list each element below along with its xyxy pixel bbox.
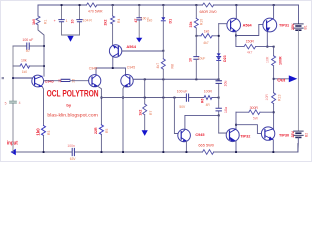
svg-text:100n: 100n bbox=[67, 144, 75, 148]
node junction base Q4 x163 bbox=[162, 50, 164, 52]
node junction base line x144 bbox=[144, 78, 146, 80]
wire bottom ground rail bbox=[15, 144, 298, 152]
wire Q2 emitter column bbox=[98, 86, 102, 125]
svg-text:5W: 5W bbox=[253, 117, 259, 121]
node junction rail x139 bbox=[138, 4, 140, 6]
wire Q6 collector up and over bbox=[185, 115, 219, 129]
svg-text:300R: 300R bbox=[250, 106, 259, 110]
svg-text:Out: Out bbox=[277, 78, 285, 83]
resistor R16 rail left 470R bbox=[87, 3, 97, 7]
battery B1 positive supply bbox=[298, 5, 300, 23]
svg-text:R7: R7 bbox=[149, 111, 153, 115]
svg-text:10: 10 bbox=[70, 20, 74, 24]
node junction rail x196 bbox=[195, 4, 197, 6]
node junction Q6 emitter rail bbox=[186, 151, 188, 153]
node junction out bbox=[273, 78, 275, 80]
diode D1 bbox=[161, 17, 165, 20]
svg-text:5: 5 bbox=[5, 101, 7, 105]
svg-text:1k0: 1k0 bbox=[36, 128, 41, 136]
node junction output column top bbox=[273, 46, 275, 48]
wire mid bias column x218 upper bbox=[218, 24, 220, 54]
left edge port tick bbox=[2, 77, 4, 79]
wire R7 to ground bbox=[144, 115, 146, 130]
wire base Q1 bbox=[13, 77, 32, 79]
wire driver branch down bbox=[174, 98, 178, 134]
svg-text:D1: D1 bbox=[169, 19, 173, 24]
capacitor C11 on input column bbox=[10, 101, 17, 103]
svg-text:1k0: 1k0 bbox=[32, 19, 36, 25]
svg-text:1: 1 bbox=[66, 19, 68, 23]
svg-text:100R: 100R bbox=[204, 90, 213, 94]
svg-text:TIP32: TIP32 bbox=[240, 134, 250, 138]
node junction VAS rail bbox=[162, 151, 164, 153]
wire input column bbox=[12, 46, 14, 152]
node junction rail x79 bbox=[79, 4, 81, 6]
node junction base Q1 bbox=[12, 77, 14, 79]
wire Q9 emitter to rail bbox=[272, 140, 274, 152]
svg-text:22R: 22R bbox=[94, 127, 98, 134]
node junction feedback x218 bbox=[218, 97, 220, 99]
svg-text:10u: 10u bbox=[224, 107, 228, 113]
svg-text:100 uF: 100 uF bbox=[177, 89, 188, 93]
svg-text:D23: D23 bbox=[223, 55, 227, 62]
resistor R9 bias bbox=[201, 34, 212, 38]
wire C4 to Q2 base bbox=[70, 80, 89, 82]
wire R1 to input node bbox=[38, 25, 44, 46]
wire out stub bbox=[274, 78, 289, 80]
resistor R17 rail right 680R bbox=[203, 3, 214, 7]
svg-text:63V: 63V bbox=[70, 157, 77, 161]
svg-text:R5: R5 bbox=[105, 129, 109, 133]
svg-text:A564: A564 bbox=[243, 24, 253, 28]
capacitor C9 bbox=[194, 57, 199, 60]
input terminal arrow bbox=[11, 149, 16, 156]
wire Q6 emitter to rail bbox=[185, 141, 187, 152]
node junction rail x273 bbox=[273, 4, 275, 6]
node junction rail x163 bbox=[162, 4, 164, 6]
node junction feedback x144 bbox=[144, 97, 146, 99]
wire node to Q1 collector bbox=[43, 46, 45, 76]
resistor R7 tail bbox=[143, 104, 147, 115]
wire tail column bbox=[144, 79, 146, 104]
svg-text:47: 47 bbox=[134, 19, 138, 23]
transistor Q3 C945 bbox=[121, 75, 133, 87]
resistor R14 bbox=[249, 110, 260, 115]
wire lower bias row bbox=[236, 111, 274, 113]
wire lower branch bbox=[13, 65, 44, 67]
svg-text:25V: 25V bbox=[291, 23, 295, 30]
transistor Q7 power TIP32 bbox=[226, 129, 239, 142]
node junction input node A bbox=[43, 45, 45, 47]
wire Q4 collector down bbox=[112, 57, 114, 68]
capacitor C10 series in ground rail bbox=[72, 148, 74, 155]
resistor R2 series lower branch bbox=[20, 64, 30, 68]
wire Q7 base stub bbox=[219, 132, 227, 134]
wire output column bbox=[273, 47, 275, 56]
output terminal arrow bbox=[289, 75, 298, 82]
svg-text:input: input bbox=[7, 141, 18, 147]
wire Q3 base line to bias network bbox=[133, 78, 218, 80]
svg-text:A564: A564 bbox=[126, 44, 136, 49]
wire Q1 to C4 bbox=[44, 80, 61, 82]
svg-text:2k2: 2k2 bbox=[104, 20, 108, 26]
svg-text:680R 2W0: 680R 2W0 bbox=[200, 10, 217, 14]
capacitor C3 series input bbox=[27, 43, 29, 49]
node junction T bar bbox=[112, 67, 114, 69]
capacitor C5 from rail bbox=[138, 5, 140, 38]
svg-text:10: 10 bbox=[58, 79, 62, 83]
wire to Q9 base bbox=[236, 125, 261, 134]
svg-text:C945: C945 bbox=[89, 67, 97, 71]
transistor Q9 power TIP3055 bbox=[261, 127, 274, 140]
svg-text:R1: R1 bbox=[44, 20, 48, 24]
node junction R9 right bbox=[218, 35, 220, 37]
battery B2 negative supply bbox=[294, 131, 304, 137]
node junction x236 y124 bbox=[235, 124, 237, 126]
resistor R5 Q2 emitter bbox=[99, 125, 103, 135]
svg-text:100 uF: 100 uF bbox=[22, 38, 33, 42]
svg-text:10uF: 10uF bbox=[198, 56, 206, 60]
ground arrow G1 bbox=[67, 36, 73, 42]
node junction Q3 emitter rail bbox=[122, 151, 124, 153]
wire VAS column mid bbox=[162, 21, 164, 59]
svg-text:665 5W0: 665 5W0 bbox=[198, 143, 214, 148]
capacitor C7 bbox=[216, 79, 221, 97]
node junction R3 rail bbox=[43, 151, 45, 153]
svg-text:4R: 4R bbox=[206, 103, 211, 107]
svg-text:R6: R6 bbox=[201, 99, 205, 103]
wire R13 down to Q9 bbox=[273, 104, 275, 129]
node junction R9 left bbox=[195, 35, 197, 37]
svg-text:4k7: 4k7 bbox=[247, 51, 253, 55]
svg-text:TIP30: TIP30 bbox=[279, 134, 289, 138]
resistor R15 series in ground rail 0R5 bbox=[203, 150, 214, 155]
node junction x218 y115 bbox=[218, 115, 220, 117]
node junction Q8 emitter output bbox=[266, 46, 268, 48]
svg-text:4k7: 4k7 bbox=[203, 41, 209, 45]
node junction feedback x163 bbox=[162, 97, 164, 99]
capacitor C1 rail decoupling electrolytic bbox=[61, 5, 63, 35]
svg-text:50: 50 bbox=[26, 49, 30, 53]
svg-text:R8: R8 bbox=[170, 64, 174, 69]
svg-text:33k: 33k bbox=[189, 22, 193, 28]
svg-text:10R: 10R bbox=[265, 56, 269, 63]
svg-text:C945: C945 bbox=[195, 133, 204, 137]
wire diodes to base line bbox=[218, 61, 220, 80]
svg-text:25V: 25V bbox=[291, 131, 295, 138]
canvas background bbox=[0, 0, 312, 162]
capacitor C8 bbox=[218, 98, 220, 116]
transistor Q8 driver TIP31 bbox=[263, 18, 277, 32]
ground arrow G3 bbox=[142, 130, 148, 136]
svg-text:150R: 150R bbox=[246, 40, 255, 44]
node junction base line x196 bbox=[195, 78, 197, 80]
node junction rail x112 bbox=[112, 4, 114, 6]
svg-text:R3: R3 bbox=[47, 131, 51, 135]
wire bias resistor row bbox=[196, 35, 218, 37]
svg-text:50V: 50V bbox=[179, 105, 186, 109]
svg-text:4: 4 bbox=[19, 101, 21, 105]
wire Q5 emitter down bbox=[235, 32, 237, 36]
wire collector bar of pair bbox=[96, 68, 126, 75]
svg-text:1k0: 1k0 bbox=[22, 70, 27, 74]
svg-text:1k2: 1k2 bbox=[138, 110, 142, 116]
node junction rail x236 bbox=[235, 4, 237, 6]
wire bus to Q8 base bbox=[236, 24, 263, 35]
node junction Q7 rail bbox=[235, 151, 237, 153]
resistor R4 Q4 emitter from rail bbox=[112, 5, 114, 16]
node junction R5 rail bbox=[101, 151, 103, 153]
resistor R10 from rail x196 bbox=[195, 5, 197, 18]
svg-text:B2: B2 bbox=[304, 133, 308, 137]
svg-text:104 R: 104 R bbox=[83, 19, 93, 23]
resistor R6 series feedback bbox=[204, 96, 212, 100]
svg-text:100R: 100R bbox=[278, 56, 282, 65]
capacitor C6 series feedback bbox=[186, 94, 188, 101]
svg-text:C945: C945 bbox=[45, 79, 54, 83]
ground arrow G2 bbox=[136, 38, 142, 43]
node junction Q9 rail bbox=[272, 151, 274, 153]
svg-text:C945: C945 bbox=[127, 65, 135, 69]
transistor Q5 driver A564 bbox=[227, 18, 241, 32]
transistor Q4 A564 bbox=[109, 45, 121, 57]
transistor Q2 C945 bbox=[89, 75, 101, 87]
resistor R1 input bias from rail bbox=[37, 5, 39, 16]
transistor Q1 C945 bbox=[32, 75, 44, 87]
wire x218 to Q7 base bbox=[219, 115, 227, 133]
resistor R8 VAS bbox=[161, 59, 165, 69]
wire Q1 emitter to R3 bbox=[42, 87, 43, 126]
wire Q3 emitter column bbox=[123, 86, 124, 152]
node junction rail x61 bbox=[61, 4, 63, 6]
node junction feedback x174 bbox=[174, 97, 176, 99]
svg-text:4k7: 4k7 bbox=[156, 63, 160, 69]
svg-text:by: by bbox=[66, 103, 71, 108]
capacitor C4 interstage bbox=[61, 79, 70, 81]
svg-text:10: 10 bbox=[188, 58, 192, 62]
resistor R3 Q1 emitter bbox=[42, 126, 46, 136]
svg-text:R13: R13 bbox=[277, 95, 281, 101]
node junction Q3 emitter feedback bbox=[122, 97, 124, 99]
resistor R11 zobel bbox=[244, 44, 256, 49]
node junction at R2 right bbox=[43, 65, 45, 67]
wire zobel row bbox=[236, 36, 274, 47]
diode D2 bbox=[217, 53, 221, 56]
svg-text:1k0: 1k0 bbox=[204, 30, 210, 34]
wire Q5 collector to rail bbox=[235, 5, 237, 19]
wire input coupling upper branch bbox=[13, 45, 44, 47]
wire Q8 collector to rail bbox=[273, 5, 275, 18]
node junction Q5 emitter bbox=[235, 35, 237, 37]
svg-text:B1: B1 bbox=[304, 25, 308, 29]
svg-text:blas-klin.blogspot.com: blas-klin.blogspot.com bbox=[47, 113, 98, 119]
wire x236 down to Q7 bbox=[235, 112, 237, 129]
wire VAS column lower bbox=[162, 69, 164, 152]
wire R5 to rail bbox=[100, 134, 102, 152]
wire top V+ rail bbox=[38, 4, 299, 6]
svg-text:+: + bbox=[54, 19, 56, 23]
wire feedback line bbox=[101, 97, 218, 99]
svg-text:470 5WR: 470 5WR bbox=[88, 10, 103, 14]
wire R3 to rail bbox=[43, 135, 45, 152]
svg-text:10u: 10u bbox=[224, 81, 228, 87]
wire Q7 emitter to rail bbox=[235, 141, 237, 152]
svg-text:R10: R10 bbox=[200, 19, 204, 25]
wire VAS column top bbox=[162, 5, 164, 17]
wire x196 down bbox=[195, 36, 197, 56]
wire Q4 base to VAS column bbox=[122, 50, 163, 52]
capacitor C2 rail decoupling 104 bbox=[79, 5, 81, 35]
resistor R13 bbox=[272, 93, 276, 104]
node junction x273 y112 bbox=[273, 111, 275, 113]
node junction base line x163 bbox=[162, 78, 164, 80]
svg-text:10R: 10R bbox=[265, 94, 269, 101]
resistor R12 bbox=[272, 56, 276, 66]
wire Q5 base bbox=[219, 23, 227, 25]
svg-text:10k: 10k bbox=[21, 58, 27, 62]
wire Q8 emitter down bbox=[266, 32, 268, 47]
svg-text:1k0: 1k0 bbox=[147, 18, 153, 22]
svg-text:R4: R4 bbox=[117, 19, 121, 23]
svg-text:TIP31: TIP31 bbox=[279, 24, 289, 28]
node junction base line x218 bbox=[218, 78, 220, 80]
wire cap bottoms to ground bbox=[62, 34, 80, 36]
node junction Q2 emitter feedback bbox=[101, 97, 103, 99]
wire R12 to out node bbox=[273, 66, 275, 93]
diode D3 bbox=[217, 57, 221, 60]
transistor Q6 driver bbox=[178, 129, 191, 142]
svg-text:OCL POLYTRON: OCL POLYTRON bbox=[47, 88, 99, 98]
